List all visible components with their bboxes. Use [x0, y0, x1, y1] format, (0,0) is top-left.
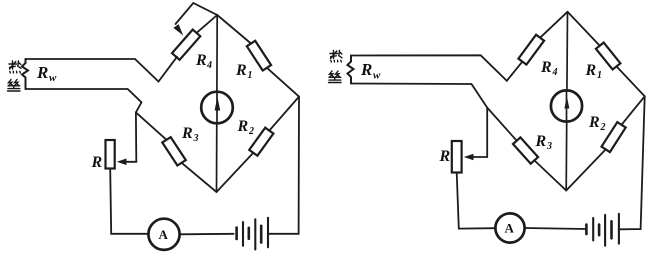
wire R to bottom rail (right figure)	[457, 173, 496, 229]
galvanometer needle arrow (right figure)	[564, 96, 569, 109]
wire ammeter to battery (left figure)	[180, 233, 234, 236]
svg-text:4: 4	[206, 60, 212, 71]
wire ammeter to battery (right figure)	[525, 228, 587, 229]
wiper arrow into R (left figure)	[117, 159, 127, 166]
svg-text:3: 3	[193, 133, 199, 144]
resistor R4 (left figure, adjustable arm) body	[172, 30, 200, 60]
ammeter A (right figure) circle	[495, 213, 524, 242]
battery (right figure) plates	[586, 221, 611, 238]
label R (right figure)	[439, 148, 451, 165]
glyph si (left)	[9, 80, 12, 86]
galvanometer needle arrow (left figure)	[215, 97, 221, 111]
wire top of Rw loop (right figure)	[351, 55, 522, 81]
label R (left figure)	[91, 154, 103, 171]
label R2 (left figure)	[237, 118, 255, 137]
resistor R2 (right figure) body	[602, 122, 626, 152]
battery (left figure) plates	[237, 226, 262, 243]
underline under si (right)	[329, 82, 342, 84]
wire bottom of Rw loop (right figure)	[351, 84, 487, 108]
svg-text:w: w	[49, 72, 57, 84]
wire galvanometer branch center vertical (right figure)	[566, 12, 567, 191]
wire galvanometer branch center vertical (left figure)	[216, 15, 219, 192]
svg-text:R: R	[360, 60, 372, 79]
resistor R3 (left figure) wires	[136, 112, 167, 139]
resistor R3 (left figure) body	[162, 137, 186, 165]
svg-text:R: R	[588, 114, 600, 131]
label Rw (left figure)	[36, 63, 57, 84]
svg-text:R: R	[91, 154, 103, 171]
resistor R3 (right figure) wires	[487, 108, 517, 141]
wire left vertex down to rheostat wiper (left figure)	[122, 112, 136, 161]
svg-text:R: R	[439, 148, 451, 165]
svg-text:R: R	[235, 62, 247, 79]
rheostat wiper arm over R4 (left figure)	[176, 3, 218, 24]
wire left vertex down to rheostat wiper (right figure)	[469, 108, 487, 157]
hot wire Rw (left figure) zigzag element	[22, 59, 28, 89]
svg-text:R: R	[36, 63, 48, 82]
rheostat R (right figure) body	[452, 141, 462, 173]
galvanometer G (left figure) circle	[201, 92, 233, 124]
wire top of Rw loop (left figure)	[26, 57, 178, 82]
wire R4 to top node (right figure)	[540, 12, 567, 38]
label hot-wire characters 热丝 (left figure)	[8, 61, 22, 91]
wire bottom of Rw loop (left figure)	[26, 89, 142, 112]
ammeter A (left figure) circle	[148, 219, 179, 250]
svg-text:R: R	[237, 118, 249, 135]
svg-text:R: R	[195, 52, 207, 69]
svg-text:4: 4	[552, 67, 558, 78]
svg-text:1: 1	[248, 70, 253, 81]
label A ammeter (left figure)	[159, 227, 169, 242]
label R4 (left figure)	[195, 52, 212, 71]
svg-text:3: 3	[546, 141, 552, 152]
svg-text:A: A	[159, 227, 169, 242]
svg-text:1: 1	[597, 70, 602, 81]
underline under si (left)	[8, 90, 21, 92]
label R1 (right figure)	[585, 62, 603, 81]
label hot-wire characters 热丝 (right figure)	[329, 51, 343, 83]
resistor R2 (left figure) wires	[269, 97, 299, 131]
svg-text:R: R	[585, 62, 597, 79]
resistor R1 (left figure) body	[247, 41, 271, 71]
glyph re (right)	[330, 53, 338, 55]
resistor R1 (right figure) body	[596, 43, 621, 70]
wiper arrow onto R4 (left figure)	[173, 24, 183, 35]
svg-text:A: A	[505, 221, 515, 236]
rheostat R (left figure) body	[106, 140, 115, 169]
label R4 (right figure)	[540, 59, 558, 78]
glyph re (left)	[9, 63, 17, 65]
label Rw (right figure)	[360, 60, 381, 82]
resistor R2 (right figure) wires	[622, 96, 645, 125]
label A ammeter (right figure)	[505, 221, 515, 236]
wire battery to right riser (right figure)	[620, 96, 645, 229]
resistor R1 (right figure) wires	[568, 12, 600, 46]
galvanometer G (right figure) circle	[551, 90, 582, 121]
resistor R1 (left figure) wires	[217, 15, 251, 44]
svg-text:2: 2	[248, 126, 254, 137]
svg-text:2: 2	[600, 122, 606, 133]
resistor R3 (right figure) body	[513, 137, 538, 163]
wire R4 to top node (left figure)	[197, 15, 218, 33]
svg-text:w: w	[373, 70, 381, 82]
label R3 (left figure)	[181, 125, 199, 144]
resistor R2 (left figure) body	[249, 128, 273, 156]
svg-text:R: R	[535, 133, 547, 150]
svg-text:R: R	[181, 125, 193, 142]
label R1 (left figure)	[235, 62, 253, 81]
wire R to bottom rail (left figure)	[110, 169, 148, 234]
hot wire Rw (right figure) zigzag element	[348, 56, 354, 84]
resistor R4 (right figure) body	[518, 35, 544, 65]
label R3 (right figure)	[535, 133, 553, 152]
wire battery to right riser (left figure)	[269, 97, 299, 234]
label R2 (right figure)	[588, 114, 606, 133]
glyph si (right)	[330, 71, 333, 77]
wiper arrow into R (right figure)	[464, 154, 474, 161]
svg-text:R: R	[540, 59, 552, 76]
